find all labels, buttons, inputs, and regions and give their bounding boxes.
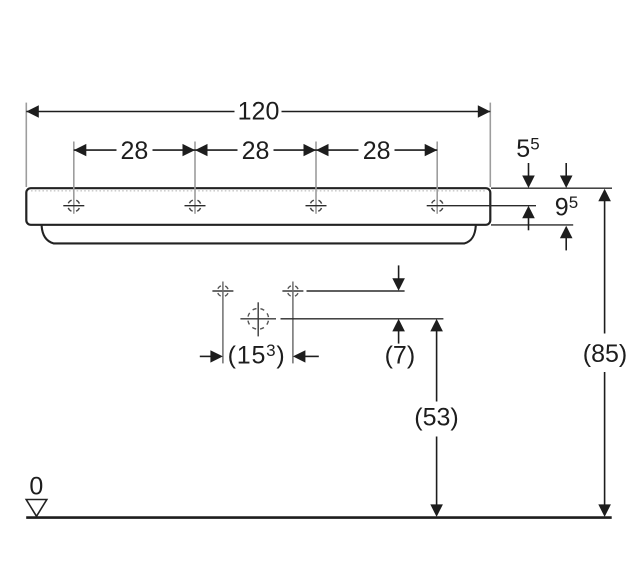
arrow right at hole3 <box>304 144 317 156</box>
arrow right at hole4 <box>425 144 438 156</box>
tap hole 2 <box>185 200 206 212</box>
extension line hole 3 <box>315 142 317 214</box>
dimension line 28 second <box>195 149 316 151</box>
arrow right at hole2 <box>183 144 196 156</box>
tap hole 3 <box>306 200 327 212</box>
arrow right 120 <box>478 105 491 117</box>
extension line hole B <box>292 282 294 364</box>
floor baseline <box>26 516 612 519</box>
dimension 85 vertical line <box>604 199 606 506</box>
mounting hole B <box>282 286 303 297</box>
top edge extension line <box>491 187 612 189</box>
bottom edge extension line <box>491 224 573 226</box>
extension line hole 2 <box>194 142 196 214</box>
drain level reference line <box>281 318 444 320</box>
dimension 5-5 upper arrow <box>522 163 535 188</box>
dimension 15-3 right arrow <box>293 350 319 362</box>
drain hole dashed circle <box>240 302 276 336</box>
tap hole 1 <box>63 200 84 212</box>
extension line hole 1 <box>73 142 75 214</box>
basin outline <box>26 188 490 225</box>
dimension line 120 <box>26 111 490 113</box>
dimension 53 bottom arrow <box>430 504 443 517</box>
mounting hole A <box>212 286 233 297</box>
arrow left at hole1 <box>74 144 87 156</box>
basin bowl front outline <box>42 226 476 244</box>
arrow left at hole3 <box>316 144 329 156</box>
dimension 9-5 lower arrow <box>560 226 573 251</box>
svg-text:28: 28 <box>363 137 391 165</box>
extension line left (120) <box>25 103 27 187</box>
datum triangle <box>26 500 47 517</box>
basin rim hidden dashed line <box>31 190 486 192</box>
svg-text:(85): (85) <box>583 340 627 368</box>
svg-text:(7): (7) <box>385 341 416 369</box>
dimension 15-3 left arrow <box>200 350 223 362</box>
svg-text:(153): (153) <box>228 341 286 370</box>
extension line right (120) <box>489 103 491 187</box>
extension line hole 4 <box>436 142 438 214</box>
dimension 53 vertical line <box>436 329 438 506</box>
arrow left at hole2 <box>195 144 208 156</box>
dimension 85 bottom arrow <box>598 504 611 517</box>
dimension 5-5 lower arrow <box>522 206 535 231</box>
svg-text:28: 28 <box>120 137 148 165</box>
dimension line 28 first <box>74 149 195 151</box>
dimension 7 upper arrow <box>392 265 405 290</box>
dimension 53 top arrow <box>430 319 443 332</box>
dimension line 28 third <box>316 149 437 151</box>
svg-text:(53): (53) <box>414 404 458 432</box>
hole level reference line <box>307 290 405 292</box>
extension line hole A <box>222 282 224 364</box>
dimension 85 top arrow <box>598 189 611 202</box>
tap hole 4 <box>427 200 536 212</box>
svg-text:120: 120 <box>238 98 280 126</box>
dimension 7 lower arrow <box>392 319 405 344</box>
dimension 9-5 upper arrow <box>560 163 573 188</box>
arrow left 120 <box>26 105 39 117</box>
svg-text:28: 28 <box>242 137 270 165</box>
svg-text:0: 0 <box>29 472 43 500</box>
